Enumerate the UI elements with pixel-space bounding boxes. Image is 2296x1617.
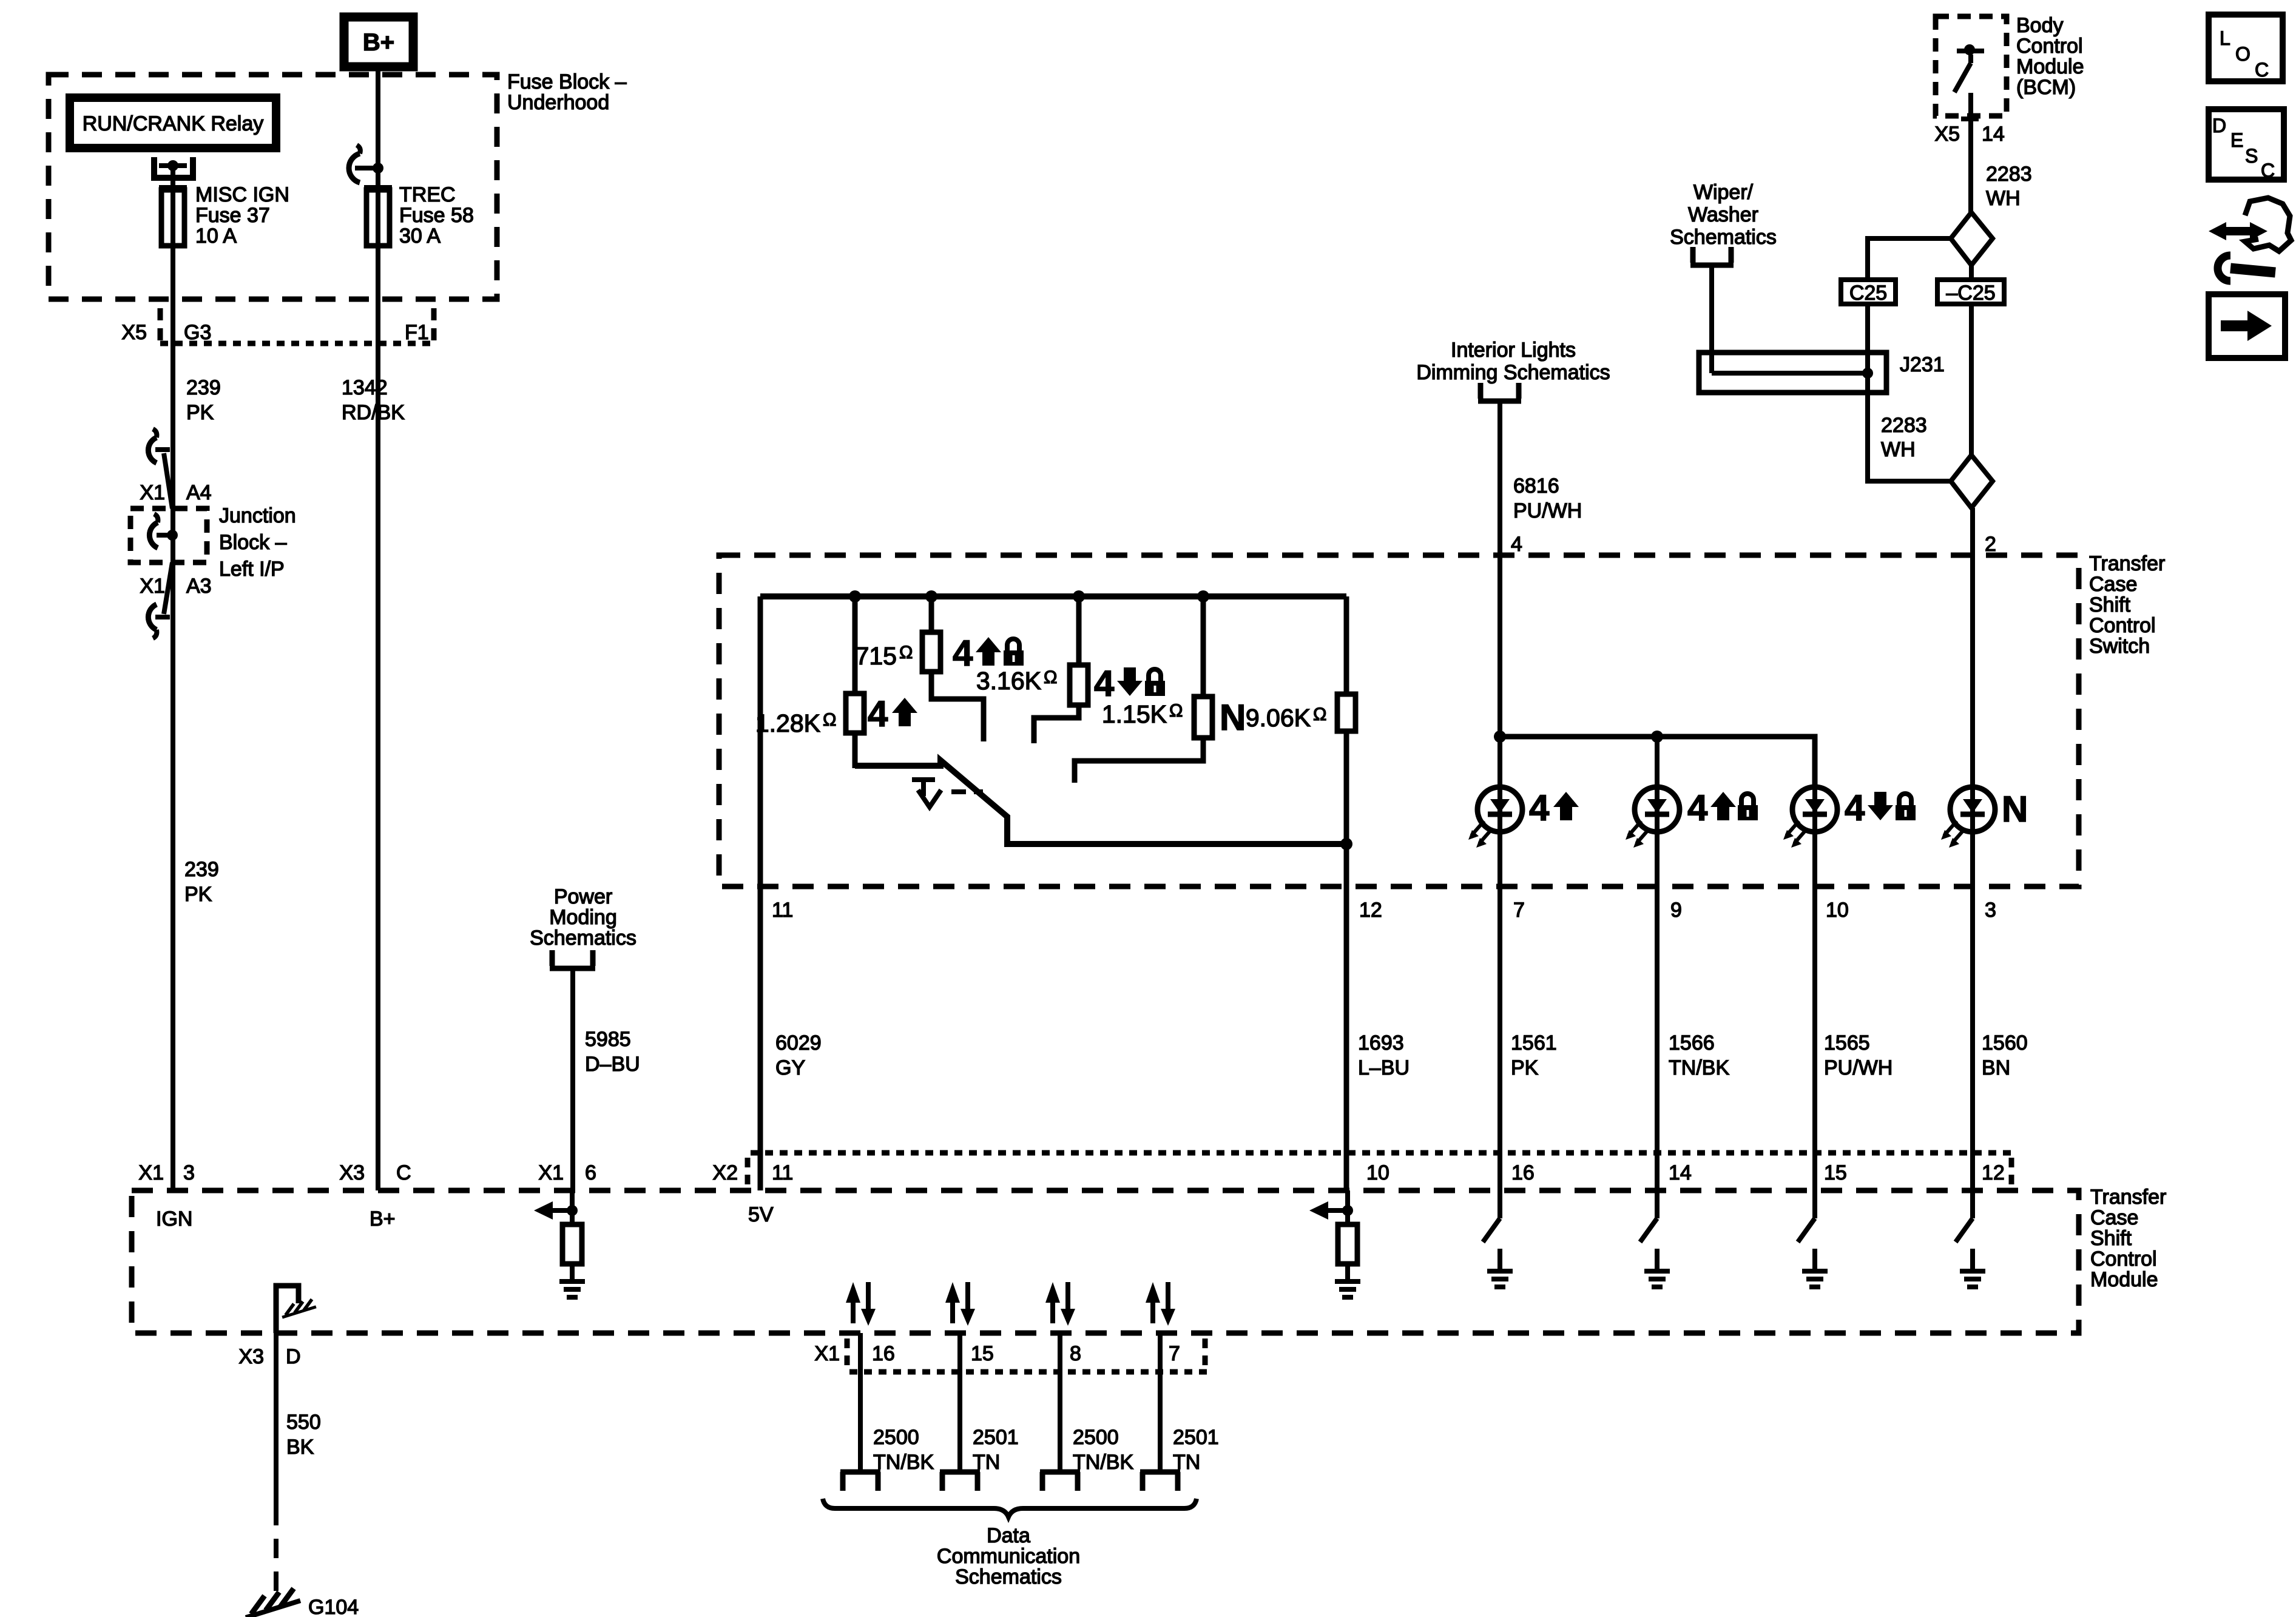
brace data communication [823,1499,1197,1517]
label interior lights dimming schematics [1416,339,1610,384]
svg-text:D: D [286,1345,301,1368]
svg-text:B+: B+ [370,1207,396,1230]
svg-text:15: 15 [971,1342,994,1365]
svg-text:9: 9 [1670,899,1682,922]
wire serial data 2500 (pin16) [858,1333,863,1470]
svg-text:Ω: Ω [1044,667,1057,687]
svg-text:(BCM): (BCM) [2016,76,2076,99]
wire serial data 2501 (pin15) [957,1333,962,1470]
svg-text:Schematics: Schematics [530,927,636,950]
svg-text:Data: Data [987,1524,1030,1547]
wire wiper to J231 [1709,265,1714,373]
svg-text:Case: Case [2089,573,2137,596]
module input switch pin 16 [1483,1187,1513,1287]
connector labels X1 6 [538,1161,596,1184]
svg-text:5V: 5V [748,1203,774,1226]
off-page bracket interior lights [1478,383,1521,401]
svg-text:–C25: –C25 [1946,282,1995,305]
svg-text:Transfer: Transfer [2090,1186,2166,1209]
svg-text:4: 4 [1094,663,1115,704]
svg-text:6: 6 [585,1161,596,1184]
label wiper washer schematics [1670,181,1777,249]
svg-text:D: D [2212,115,2226,137]
label wire 1565 PU/WH [1824,1031,1893,1079]
svg-text:C: C [396,1161,411,1184]
data link arrows pin 15 [945,1282,975,1326]
label junction block left I/P [219,504,296,581]
connector labels X3 C [339,1161,411,1184]
resistor 9.06K [1337,596,1356,844]
svg-text:3: 3 [183,1161,195,1184]
label wire 2500 TN/BK (pin8) [1073,1426,1133,1474]
wire IGN from relay down to module pin 3 [171,166,175,1190]
splice diamond lower [1951,455,1993,508]
svg-text:Underhood: Underhood [507,91,609,114]
svg-text:30 A: 30 A [399,224,441,248]
connector labels X1 A3 [140,575,211,598]
module pull-up for pin 10 [1309,1190,1360,1297]
wire 5985 to module pin 6 [570,968,575,1190]
svg-text:4: 4 [1511,533,1522,556]
svg-text:4: 4 [1845,788,1865,828]
svg-text:Control: Control [2090,1247,2157,1271]
module pull-up for pin 6 [534,1190,585,1297]
svg-text:16: 16 [872,1342,895,1365]
label body control module BCM [2016,14,2084,99]
label wire 1561 PK [1511,1031,1557,1079]
label 4 up (1.28K) [868,694,917,734]
svg-text:715: 715 [856,642,897,670]
label wire 2283 WH upper [1986,163,2032,210]
svg-text:Ω: Ω [1313,704,1326,724]
ground G104 [246,1588,359,1617]
svg-text:7: 7 [1513,899,1525,922]
svg-text:6816: 6816 [1513,474,1559,498]
svg-text:4: 4 [868,694,888,734]
svg-text:Fuse 58: Fuse 58 [399,204,474,227]
svg-text:6029: 6029 [775,1031,822,1055]
svg-text:3: 3 [1985,899,1996,922]
relay contact (bracket) for MISC IGN fuse [154,157,193,178]
svg-text:2500: 2500 [873,1426,919,1449]
svg-text:1566: 1566 [1669,1031,1715,1055]
data link arrows pin 16 [846,1282,876,1326]
svg-text:L–BU: L–BU [1358,1056,1410,1079]
icon forward arrow box [2209,294,2285,358]
svg-text:Schematics: Schematics [1670,226,1777,249]
svg-text:Left I/P: Left I/P [219,558,285,581]
svg-text:Transfer: Transfer [2089,552,2165,575]
svg-text:PU/WH: PU/WH [1824,1056,1893,1079]
svg-text:WH: WH [1881,438,1916,461]
svg-text:1565: 1565 [1824,1031,1870,1055]
BCM internal switch [1954,44,1984,212]
svg-text:PK: PK [184,883,212,906]
svg-text:Ω: Ω [899,643,913,663]
label wire 2501 TN (pin7) [1173,1426,1219,1474]
svg-text:F1: F1 [405,321,429,344]
svg-text:239: 239 [184,858,219,881]
svg-text:X1: X1 [140,481,165,504]
svg-text:Fuse 37: Fuse 37 [195,204,270,227]
svg-text:TREC: TREC [399,183,456,206]
svg-text:X5: X5 [1934,123,1960,146]
module input switch pin 15 [1798,1187,1828,1287]
label fuse block underhood [507,70,627,114]
wire diamond to C25 [1868,238,1951,280]
transfer case shift control module dashed box [132,1190,2079,1333]
off-page connector (pin8) [1040,1472,1080,1491]
svg-text:C: C [2255,59,2269,81]
svg-text:2283: 2283 [1881,414,1927,437]
fuse MISC IGN Fuse 37 10 A [159,187,187,246]
svg-text:7: 7 [1169,1342,1180,1365]
svg-text:TN/BK: TN/BK [1669,1056,1729,1079]
data link arrows pin 7 [1146,1282,1175,1326]
label wire 5985 D-BU [585,1028,640,1076]
svg-text:TN/BK: TN/BK [1073,1451,1133,1474]
svg-text:Module: Module [2090,1268,2158,1291]
junction block dashed box [130,508,207,562]
junction block splice contact [149,514,178,548]
wire switch pin 11 [758,596,763,1190]
svg-text:MISC IGN: MISC IGN [195,183,289,206]
svg-text:S: S [2245,145,2258,167]
svg-text:10: 10 [1826,899,1849,922]
svg-text:TN/BK: TN/BK [873,1451,934,1474]
indicator LED 4up-lock [1626,787,1680,848]
svg-text:PU/WH: PU/WH [1513,499,1582,522]
svg-text:X5: X5 [121,321,147,344]
wire LED2 branch / switch pin 9 [1655,737,1660,1190]
label wire 1560 BN [1982,1031,2028,1079]
switch actuator mark [912,780,983,807]
junction block upper contact hook [148,429,172,508]
svg-text:1560: 1560 [1982,1031,2028,1055]
data link connector X1 box [814,1338,1207,1372]
off-page bracket power moding [550,950,595,968]
svg-text:2501: 2501 [973,1426,1019,1449]
svg-text:X3: X3 [339,1161,365,1184]
label 4 up lock (715) [953,633,1024,673]
svg-text:X1: X1 [538,1161,564,1184]
svg-text:X3: X3 [238,1345,264,1368]
indicator LED 4down-lock [1783,787,1837,848]
svg-text:Control: Control [2089,614,2156,637]
off-page connector (pin7) [1140,1472,1180,1491]
indicator LED 4up [1468,787,1522,848]
svg-text:10 A: 10 A [195,224,237,248]
label LED 4 down lock [1845,788,1916,828]
wire -C25 to lower diamond [1969,304,1974,455]
svg-text:Interior Lights: Interior Lights [1451,339,1576,362]
junction block lower contact hook [148,562,172,638]
svg-text:C25: C25 [1849,282,1887,305]
svg-text:A3: A3 [186,575,212,598]
svg-text:1561: 1561 [1511,1031,1557,1055]
off-page bracket wiper washer [1690,247,1734,265]
connector labels X5 14 [1934,123,2004,146]
svg-text:Communication: Communication [937,1545,1080,1568]
svg-text:8: 8 [1070,1342,1081,1365]
svg-text:Body: Body [2016,14,2064,37]
label wire 550 BK [286,1411,321,1459]
label wire 2283 WH lower [1881,414,1927,461]
wire diamond to switch pin 2 / LED N [1970,508,1975,1190]
label 9.06K ohm [1246,704,1327,732]
svg-text:N: N [2002,789,2028,829]
svg-text:15: 15 [1824,1161,1847,1184]
resistor 1.15K [1075,596,1212,783]
resistor 1.28K [846,596,864,768]
svg-text:L: L [2220,27,2230,49]
svg-text:12: 12 [1982,1161,2005,1184]
svg-text:2500: 2500 [1073,1426,1119,1449]
label transfer case shift control module [2090,1186,2166,1291]
connector labels X1 A4 [140,481,211,504]
svg-text:10: 10 [1366,1161,1389,1184]
connector labels X2 11 [712,1161,793,1184]
splice diamond upper [1951,212,1993,265]
label LED 4 up [1529,788,1579,828]
connector labels X1 3 [138,1161,195,1184]
wire B+ down to module pin C [376,67,380,1190]
fuse TREC Fuse 58 30 A [364,187,392,246]
label LED 4 up lock [1687,788,1758,828]
svg-text:O: O [2235,43,2250,65]
svg-text:Ω: Ω [823,710,836,730]
svg-text:1.28K: 1.28K [755,709,820,737]
wire serial data 2501 (pin7) [1158,1333,1163,1470]
data link arrows pin 8 [1045,1282,1075,1326]
icon diagnostic arrow and wrench [2209,198,2291,281]
wire serial data 2500 (pin8) [1058,1333,1062,1470]
svg-text:4: 4 [1529,788,1550,828]
svg-text:2: 2 [1985,533,1996,556]
svg-text:E: E [2230,129,2243,151]
label MISC IGN Fuse 37 10 A [195,183,289,248]
svg-text:BN: BN [1982,1056,2010,1079]
label wire 6816 PU/WH [1513,474,1582,522]
svg-text:WH: WH [1986,187,2021,210]
label wire 1566 TN/BK [1669,1031,1729,1079]
svg-text:C: C [2261,160,2275,181]
connector X2 dotted line [748,1153,2011,1186]
svg-text:2501: 2501 [1173,1426,1219,1449]
svg-text:Switch: Switch [2089,635,2150,658]
label wire 1693 L-BU [1358,1031,1410,1079]
svg-text:A4: A4 [186,481,212,504]
label 4 down lock (3.16K) [1094,663,1165,704]
label transfer case shift control switch [2089,552,2165,658]
svg-text:12: 12 [1359,899,1382,922]
label 3.16K ohm [976,667,1058,695]
module internal ground step (pin D) [276,1286,316,1333]
svg-text:GY: GY [775,1056,805,1079]
node bus junction dots [849,590,1209,603]
module input switch pin 14 [1640,1187,1670,1287]
svg-text:X1: X1 [140,575,165,598]
svg-text:J231: J231 [1900,353,1945,376]
off-page connector (pin15) [940,1472,980,1491]
wire diamond to -C25 [1969,265,1974,280]
svg-text:Control: Control [2016,35,2083,58]
svg-text:1693: 1693 [1358,1031,1404,1055]
icon DESC box [2209,109,2284,181]
connector labels X3 D [238,1345,300,1368]
label wire 239 PK lower [184,858,219,906]
BCM dashed box [1936,16,2007,116]
label data communication schematics [937,1524,1080,1588]
wire 1693 into module pin 10 [1345,1190,1350,1207]
label wire 1342 RD/BK [342,376,405,424]
svg-text:Fuse Block –: Fuse Block – [507,70,627,93]
svg-text:Shift: Shift [2089,593,2131,616]
svg-text:3.16K: 3.16K [976,667,1041,695]
svg-text:Case: Case [2090,1206,2138,1229]
LED feed bus [1494,731,1815,787]
label 1.15K ohm [1102,700,1183,728]
svg-text:IGN: IGN [156,1207,192,1230]
svg-text:BK: BK [286,1436,314,1459]
label wire 2500 TN/BK (pin16) [873,1426,934,1474]
off-page connector (pin16) [840,1472,880,1491]
svg-text:G104: G104 [308,1596,359,1617]
svg-text:14: 14 [1982,123,2005,146]
svg-text:2283: 2283 [1986,163,2032,186]
indicator LED N [1941,787,1995,848]
svg-text:550: 550 [286,1411,321,1434]
connector -C25 box [1937,280,2004,305]
svg-text:PK: PK [1511,1056,1539,1079]
label 715 ohm [856,642,913,670]
svg-text:B+: B+ [363,29,394,56]
svg-text:Block –: Block – [219,531,287,554]
svg-text:Moding: Moding [549,906,617,929]
label power moding schematics [530,885,636,950]
svg-text:1342: 1342 [342,376,388,399]
svg-text:Wiper/: Wiper/ [1693,181,1754,204]
svg-text:11: 11 [772,899,793,922]
wire LED3 branch / switch pin 10 [1812,787,1817,1190]
icon LOC box [2209,15,2283,81]
switch wiper blade and common wire [855,760,1352,850]
svg-text:14: 14 [1669,1161,1692,1184]
splice pack J231 [1699,353,1886,393]
switch 5V bus wire [760,593,1346,599]
svg-text:239: 239 [186,376,221,399]
wire 550 BK [274,1333,279,1603]
svg-text:9.06K: 9.06K [1246,704,1311,732]
label 1.28K ohm [755,709,837,737]
wire 6816 / switch pin 7 [1497,401,1502,1190]
label TREC Fuse 58 30 A [399,183,474,248]
wire switch pin 12 [1344,844,1349,1190]
svg-text:Module: Module [2016,55,2084,78]
svg-text:D–BU: D–BU [585,1053,640,1076]
relay RUN/CRANK box [70,98,276,148]
module input switch pin 12 [1956,1187,1985,1287]
svg-text:X1: X1 [814,1342,840,1365]
svg-text:Power: Power [554,885,612,908]
svg-text:Ω: Ω [1169,701,1183,721]
svg-text:RUN/CRANK Relay: RUN/CRANK Relay [83,112,264,135]
wire C25 through J231 to lower diamond [1868,304,1951,481]
svg-text:16: 16 [1511,1161,1535,1184]
connector C25 box [1841,280,1896,305]
svg-text:RD/BK: RD/BK [342,401,405,424]
B+ power feed box [344,17,413,67]
connector row X5 G3 / F1 under fuse block [121,308,434,346]
svg-text:N: N [1220,697,1246,738]
svg-text:11: 11 [772,1161,793,1184]
svg-text:G3: G3 [184,321,211,344]
svg-text:X1: X1 [138,1161,164,1184]
label wire 239 PK upper [186,376,221,424]
label wire 6029 GY [775,1031,822,1079]
svg-text:X2: X2 [712,1161,738,1184]
svg-text:1.15K: 1.15K [1102,700,1167,728]
svg-text:4: 4 [1687,788,1708,828]
svg-text:Junction: Junction [219,504,296,527]
label wire 2501 TN (pin15) [973,1426,1019,1474]
fuse block underhood dashed box [49,75,497,299]
resistor 715 [922,596,984,741]
svg-text:Dimming Schematics: Dimming Schematics [1416,361,1610,384]
relay contact (hook) for TREC fuse [349,145,383,183]
svg-text:5985: 5985 [585,1028,631,1051]
svg-text:4: 4 [953,633,973,673]
svg-text:Shift: Shift [2090,1227,2132,1250]
svg-text:Washer: Washer [1688,203,1758,226]
resistor 3.16K [1034,596,1088,743]
svg-text:Schematics: Schematics [955,1565,1062,1588]
svg-text:PK: PK [186,401,214,424]
transfer case shift control switch dashed box [719,555,2079,886]
